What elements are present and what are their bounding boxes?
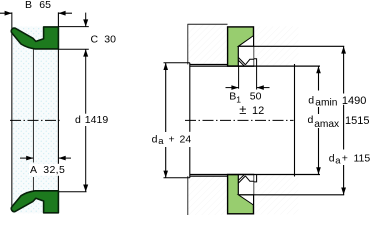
shaft seat surface top	[190, 65, 320, 67]
seal profile bottom (green, mirrored)	[11, 191, 58, 213]
svg-text:30: 30	[104, 34, 116, 46]
label A 32,5	[29, 164, 68, 176]
housing top edge line	[188, 23, 228, 25]
shaft left face	[189, 63, 191, 132]
housing left edge top	[187, 24, 189, 64]
shaft seat surface bottom	[190, 174, 320, 176]
svg-text:65: 65	[39, 0, 51, 11]
section right edge (x=58.4)	[57, 12, 59, 212]
shaft outer surface top (d_a+24 ext)	[164, 62, 190, 64]
shoulder step top	[254, 46, 257, 66]
shaft outer surface bottom	[164, 177, 190, 179]
seal ring section dotted fill	[12, 27, 59, 214]
svg-text:d: d	[308, 114, 314, 126]
svg-text:1490: 1490	[342, 95, 366, 107]
inner section line (x=33.4) upper	[32, 49, 34, 162]
svg-text:12: 12	[252, 105, 264, 117]
C extension bottom	[58, 48, 88, 50]
arrow B left	[5, 11, 12, 16]
svg-text:1419: 1419	[85, 114, 109, 126]
svg-text:50: 50	[250, 91, 262, 103]
label d 1419	[75, 114, 109, 126]
svg-text:d: d	[308, 94, 314, 106]
C / d dimension line (x=85.7)	[85, 13, 87, 27]
dimension B line	[0, 12, 12, 14]
svg-text:±: ±	[239, 102, 246, 117]
svg-text:amax: amax	[314, 119, 339, 130]
hatched housing left top	[188, 24, 228, 64]
d_amin dimension line (x=318.5)	[318, 66, 320, 90]
seal profile top (green)	[11, 27, 58, 49]
shoulder surface top	[238, 45, 344, 47]
svg-text:a: a	[335, 155, 341, 166]
seal top (mounted)	[228, 27, 254, 66]
A dimension line	[20, 157, 33, 159]
svg-text:1515: 1515	[345, 115, 369, 127]
svg-text:C: C	[91, 34, 99, 46]
svg-text:d: d	[152, 133, 158, 145]
d extension bottom	[59, 191, 87, 193]
svg-text:d: d	[329, 153, 335, 165]
1490/1515 dimension line (x=343.8)	[343, 46, 345, 93]
svg-text:32,5: 32,5	[43, 164, 65, 176]
B1 extension right	[256, 66, 258, 90]
seal bottom (mounted, mirrored)	[228, 175, 254, 214]
svg-text:+: +	[169, 133, 175, 145]
svg-text:d: d	[75, 114, 81, 126]
svg-text:B: B	[25, 0, 32, 11]
shoulder surface bottom	[238, 194, 344, 196]
B1 extension left	[238, 66, 240, 89]
centerline left figure	[10, 119, 60, 121]
hatched housing right top	[254, 26, 299, 66]
centerline right figure	[185, 119, 294, 121]
svg-text:amin: amin	[315, 98, 337, 109]
extension line left (x=11.85)	[11, 12, 13, 209]
inner section line (x=33.4) lower	[32, 177, 34, 191]
label d_a + 115	[328, 152, 371, 166]
arrow B right	[58, 11, 65, 16]
d_a+24 dimension line (x=165.7)	[165, 63, 167, 132]
housing left edge bottom	[187, 176, 189, 215]
C extension top	[58, 26, 88, 28]
shoulder step bottom	[254, 175, 257, 195]
svg-text:+: +	[342, 153, 348, 165]
hatched housing right bottom	[254, 175, 299, 215]
hatched housing left bottom	[188, 176, 228, 215]
svg-text:24: 24	[180, 133, 192, 145]
B1 dimension line + arrows	[226, 87, 239, 89]
svg-text:115: 115	[354, 153, 371, 165]
label d_a + 24	[151, 133, 194, 147]
svg-text:A: A	[30, 164, 37, 176]
svg-text:a: a	[158, 136, 164, 147]
shaft right face	[294, 64, 296, 177]
